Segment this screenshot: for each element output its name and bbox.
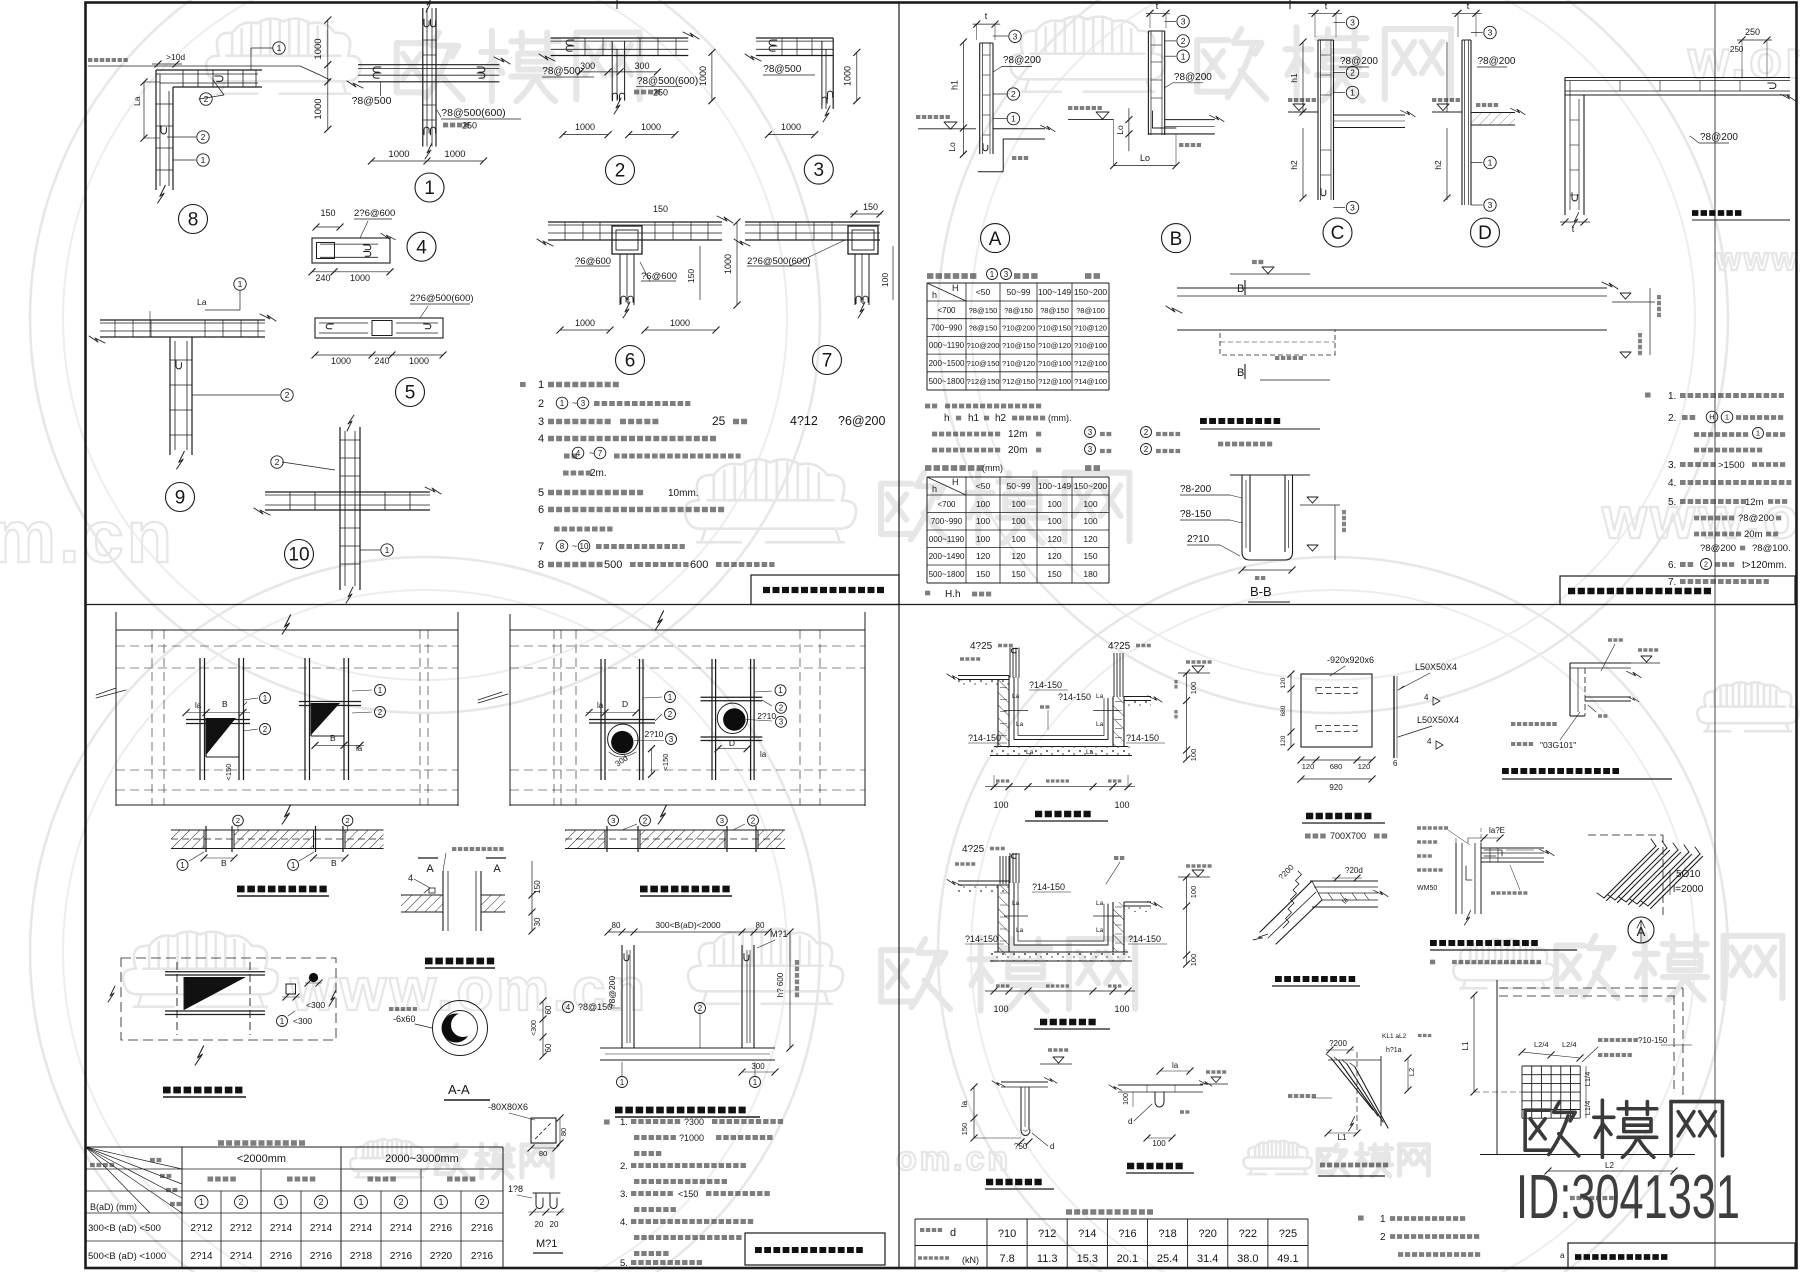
- detail D: [1461, 40, 1463, 205]
- svg-text:B: B: [1237, 283, 1244, 295]
- svg-text:1: 1: [438, 1197, 443, 1207]
- svg-text:1: 1: [180, 861, 185, 870]
- svg-text:2?10: 2?10: [645, 729, 664, 739]
- svg-text:000~1190: 000~1190: [929, 341, 965, 350]
- svg-text:?16: ?16: [1118, 1228, 1136, 1240]
- svg-text:2?16: 2?16: [310, 1251, 333, 1262]
- svg-text:2000~3000mm: 2000~3000mm: [385, 1153, 459, 1165]
- svg-text:2: 2: [238, 1197, 243, 1207]
- svg-text:la: la: [960, 1100, 969, 1107]
- svg-text:<300: <300: [531, 1020, 538, 1036]
- svg-text:6: 6: [538, 504, 544, 516]
- svg-text:A: A: [989, 229, 1002, 250]
- svg-text:2?12: 2?12: [190, 1223, 213, 1234]
- svg-text:2?10: 2?10: [1187, 534, 1210, 545]
- svg-text:150: 150: [960, 1123, 969, 1136]
- svg-text:920: 920: [1329, 783, 1343, 792]
- svg-text:2: 2: [1011, 89, 1016, 99]
- svg-text:?14-150: ?14-150: [1126, 733, 1159, 743]
- svg-text:WM50: WM50: [1417, 885, 1437, 892]
- svg-text:7: 7: [822, 351, 833, 372]
- title box BR: [1568, 1243, 1795, 1268]
- svg-text:3.: 3.: [1668, 460, 1676, 471]
- svg-text:D: D: [622, 699, 628, 709]
- svg-text:2: 2: [668, 710, 673, 719]
- svg-text:2: 2: [643, 816, 648, 825]
- svg-text:80: 80: [756, 921, 765, 930]
- svg-text:3: 3: [581, 399, 586, 408]
- svg-text:2?12: 2?12: [230, 1223, 253, 1234]
- svg-text:200~1490: 200~1490: [929, 552, 965, 561]
- svg-text:6.: 6.: [1668, 560, 1676, 571]
- svg-text:3: 3: [1013, 31, 1018, 41]
- title box TL: [751, 575, 899, 605]
- svg-text:1000: 1000: [575, 122, 595, 132]
- svg-text:120: 120: [1358, 762, 1371, 771]
- svg-text:L1: L1: [1338, 1133, 1347, 1142]
- svg-text:?14-150: ?14-150: [1128, 934, 1161, 944]
- svg-text:h1: h1: [950, 80, 960, 90]
- svg-text:7: 7: [598, 449, 603, 458]
- svg-text:1: 1: [280, 1017, 285, 1026]
- notes right block TR: [1645, 392, 1651, 397]
- svg-text:ID:3041331: ID:3041331: [1516, 1163, 1740, 1232]
- svg-text:Lo: Lo: [1115, 125, 1125, 135]
- svg-text:?1000: ?1000: [679, 1133, 704, 1143]
- BIG dark watermark text: [1525, 1100, 1722, 1157]
- svg-text:?10@120: ?10@120: [1038, 341, 1071, 350]
- svg-text:la: la: [597, 701, 604, 710]
- svg-text:(mm).: (mm).: [1048, 413, 1072, 423]
- svg-text:KL1 aL2: KL1 aL2: [1382, 1033, 1407, 1040]
- roof opening (water tank) U detail: [600, 1047, 775, 1049]
- detail 2 : T: [551, 37, 689, 39]
- detail 3 : L: [756, 37, 833, 39]
- svg-text:680: 680: [1280, 705, 1287, 716]
- svg-text:150: 150: [976, 569, 990, 579]
- svg-text:120: 120: [1011, 551, 1025, 561]
- svg-text:1: 1: [1756, 429, 1760, 438]
- svg-text:3: 3: [779, 718, 784, 727]
- svg-text:1: 1: [668, 693, 673, 702]
- svg-text:1000: 1000: [843, 66, 853, 86]
- notes BL: [604, 1119, 610, 1124]
- svg-text:?10@200: ?10@200: [1002, 324, 1035, 333]
- slab corner radial bars detail: [1496, 980, 1498, 1155]
- svg-text:4?25: 4?25: [1108, 641, 1131, 652]
- svg-text:120: 120: [1280, 735, 1287, 746]
- svg-text:60: 60: [544, 1043, 553, 1052]
- svg-text:38.0: 38.0: [1237, 1253, 1258, 1265]
- svg-text:4: 4: [1427, 737, 1432, 746]
- svg-text:La: La: [197, 297, 207, 307]
- svg-text:h2: h2: [995, 413, 1007, 424]
- svg-text:5.: 5.: [1668, 497, 1676, 508]
- svg-text:B-B: B-B: [1250, 584, 1272, 599]
- svg-text:L2/4: L2/4: [1534, 1040, 1549, 1049]
- svg-text:25: 25: [712, 414, 726, 428]
- svg-text:d: d: [950, 1227, 956, 1239]
- svg-text:100: 100: [1123, 1093, 1130, 1105]
- svg-text:?8@150: ?8@150: [1040, 306, 1069, 315]
- svg-text:2: 2: [1380, 1232, 1386, 1243]
- svg-text:1000: 1000: [444, 149, 465, 160]
- svg-text:150: 150: [1047, 569, 1061, 579]
- svg-text:?12@150: ?12@150: [1002, 377, 1035, 386]
- svg-text:2: 2: [779, 704, 784, 713]
- svg-text:t>120mm.: t>120mm.: [1742, 560, 1787, 571]
- svg-text:3: 3: [611, 816, 615, 825]
- svg-text:La: La: [1096, 693, 1104, 700]
- svg-text:La: La: [1012, 900, 1020, 907]
- svg-text:1: 1: [990, 270, 995, 279]
- BR bottom table: [1066, 1209, 1153, 1214]
- svg-text:H.h: H.h: [945, 589, 961, 600]
- svg-text:?10@120: ?10@120: [1074, 324, 1107, 333]
- svg-text:h: h: [932, 484, 937, 494]
- svg-text:?200: ?200: [1329, 1039, 1347, 1048]
- svg-text:100: 100: [1011, 499, 1025, 509]
- svg-text:680: 680: [1330, 762, 1343, 771]
- svg-text:?8@200: ?8@200: [1340, 56, 1378, 67]
- svg-text:3: 3: [669, 735, 674, 744]
- svg-text:4?25: 4?25: [962, 844, 985, 855]
- svg-text:180: 180: [1083, 569, 1097, 579]
- svg-text:Lo: Lo: [1140, 153, 1150, 163]
- svg-text:500~1800: 500~1800: [929, 570, 965, 579]
- svg-text:?20d: ?20d: [1345, 866, 1363, 875]
- svg-text:100: 100: [1114, 1004, 1129, 1014]
- svg-text:www.: www.: [1715, 241, 1800, 277]
- svg-text:2?10: 2?10: [757, 711, 776, 721]
- svg-text:30: 30: [533, 917, 542, 926]
- detail C: [1317, 40, 1319, 200]
- svg-text:1: 1: [1011, 114, 1016, 124]
- plan3 (opening detail 三): [121, 958, 336, 1040]
- beam-bottom hook detail: [1001, 1081, 1048, 1083]
- svg-text:?8@200: ?8@200: [1700, 543, 1736, 554]
- svg-text:?8@200: ?8@200: [1700, 132, 1738, 143]
- svg-text:100: 100: [1152, 1139, 1166, 1148]
- svg-text:1: 1: [620, 1078, 625, 1087]
- svg-text:4?12: 4?12: [790, 414, 818, 428]
- svg-text:B: B: [221, 858, 227, 868]
- svg-text:la: la: [356, 744, 363, 753]
- svg-text:D: D: [729, 738, 735, 748]
- svg-text:100: 100: [1083, 499, 1097, 509]
- svg-text:?10@150: ?10@150: [966, 359, 999, 368]
- svg-text:2: 2: [378, 708, 383, 717]
- svg-text:?8-150: ?8-150: [1180, 509, 1212, 520]
- svg-text:2: 2: [398, 1197, 403, 1207]
- svg-text:4?25: 4?25: [970, 641, 993, 652]
- detail 1 : cross: [422, 8, 424, 147]
- svg-text:100: 100: [880, 273, 890, 287]
- svg-text:100: 100: [1114, 800, 1129, 810]
- svg-text:4.: 4.: [620, 1217, 628, 1228]
- svg-text:2: 2: [698, 1004, 703, 1013]
- svg-text:h1: h1: [1289, 73, 1299, 83]
- svg-text:120: 120: [1280, 677, 1287, 688]
- svg-text:?8@500(600): ?8@500(600): [637, 76, 698, 87]
- svg-text:?14: ?14: [1078, 1228, 1096, 1240]
- svg-text:La: La: [1026, 749, 1034, 756]
- svg-text:h2: h2: [1433, 160, 1443, 170]
- svg-text:?8@100.: ?8@100.: [1752, 543, 1791, 554]
- svg-text:20: 20: [550, 1220, 559, 1229]
- svg-text:<300: <300: [293, 1016, 312, 1026]
- svg-text:(mm): (mm): [982, 463, 1003, 473]
- svg-text:240: 240: [374, 356, 389, 366]
- svg-text:300<B (aD) <500: 300<B (aD) <500: [88, 1223, 161, 1234]
- svg-text:La: La: [1016, 721, 1024, 728]
- svg-text:?25: ?25: [1279, 1228, 1297, 1240]
- svg-text:4.: 4.: [1668, 478, 1676, 489]
- svg-text:?8@500: ?8@500: [763, 64, 801, 75]
- svg-text:?8@200: ?8@200: [1478, 56, 1516, 67]
- svg-text:la: la: [195, 701, 202, 710]
- svg-text:A: A: [493, 863, 501, 875]
- svg-text:B: B: [331, 858, 337, 868]
- svg-text:1?8: 1?8: [508, 1184, 523, 1194]
- svg-text:?10@100: ?10@100: [1074, 341, 1107, 350]
- svg-text:>1500: >1500: [1718, 460, 1745, 471]
- svg-text:h: h: [932, 290, 937, 300]
- svg-text:?8@100: ?8@100: [1076, 306, 1105, 315]
- svg-text:150: 150: [653, 204, 668, 214]
- svg-text:La: La: [1016, 927, 1024, 934]
- svg-text:?8@200: ?8@200: [1174, 72, 1212, 83]
- svg-text:L2: L2: [1407, 1068, 1416, 1076]
- svg-text:120: 120: [1047, 534, 1061, 544]
- svg-text:100: 100: [976, 499, 990, 509]
- svg-text:150: 150: [320, 208, 335, 218]
- svg-text:4: 4: [408, 873, 413, 883]
- svg-text:L50X50X4: L50X50X4: [1415, 662, 1457, 672]
- svg-text:L1: L1: [1461, 1041, 1470, 1050]
- svg-text:1000: 1000: [313, 98, 324, 119]
- svg-text:1000: 1000: [409, 356, 429, 366]
- svg-text:H: H: [952, 283, 959, 293]
- svg-text:h1: h1: [968, 413, 980, 424]
- svg-text:2?16: 2?16: [471, 1251, 494, 1262]
- svg-text:2?14: 2?14: [230, 1251, 253, 1262]
- svg-text:1000: 1000: [641, 122, 661, 132]
- svg-text:l=2000: l=2000: [1673, 884, 1704, 895]
- svg-text:?8-200: ?8-200: [1180, 484, 1212, 495]
- svg-text:2: 2: [285, 390, 290, 400]
- svg-text:?12@150: ?12@150: [966, 377, 999, 386]
- svg-text:?10@120: ?10@120: [1002, 359, 1035, 368]
- slab-bottom hook detail: [1118, 1084, 1203, 1086]
- svg-text:1: 1: [263, 694, 268, 703]
- svg-text:2: 2: [201, 132, 206, 142]
- svg-text:h: h: [944, 413, 950, 424]
- svg-text:700~990: 700~990: [931, 517, 963, 526]
- svg-text:A-A: A-A: [448, 1082, 470, 1097]
- svg-text:?12: ?12: [1038, 1228, 1056, 1240]
- svg-text:2?6@600: 2?6@600: [354, 208, 395, 219]
- svg-text:2: 2: [204, 94, 209, 104]
- svg-text:7.8: 7.8: [999, 1253, 1014, 1265]
- svg-text:250: 250: [462, 121, 477, 131]
- svg-text:?20: ?20: [1199, 1228, 1217, 1240]
- svg-text:?8@150: ?8@150: [969, 324, 998, 333]
- svg-text:1000: 1000: [388, 149, 409, 160]
- detail 10 : big cross: [339, 427, 341, 590]
- svg-text:~: ~: [589, 448, 594, 458]
- svg-text:8: 8: [560, 542, 565, 551]
- svg-text:500~1800: 500~1800: [929, 377, 965, 386]
- svg-text:M?1: M?1: [770, 929, 788, 939]
- svg-text:150: 150: [533, 880, 542, 894]
- svg-text:?12@100: ?12@100: [1074, 359, 1107, 368]
- svg-text:8: 8: [538, 559, 544, 571]
- svg-text:?10-150: ?10-150: [1638, 1036, 1668, 1045]
- svg-text:1: 1: [424, 178, 435, 199]
- svg-text:d: d: [1050, 1142, 1054, 1151]
- svg-text:5: 5: [405, 383, 416, 404]
- svg-text:2?6@500(600): 2?6@500(600): [410, 293, 474, 304]
- svg-text:1: 1: [291, 861, 296, 870]
- svg-text:100~149: 100~149: [1038, 287, 1072, 297]
- svg-text:2.: 2.: [620, 1161, 628, 1172]
- svg-text:?8@150: ?8@150: [969, 306, 998, 315]
- svg-text:150: 150: [1083, 551, 1097, 561]
- svg-text:h? 600: h? 600: [776, 972, 785, 997]
- table 2: [927, 476, 1109, 478]
- svg-text:3: 3: [814, 160, 825, 181]
- svg-text:120: 120: [1047, 551, 1061, 561]
- B-B lintel drawing: [1177, 287, 1607, 289]
- svg-text:2m.: 2m.: [590, 468, 607, 479]
- svg-text:2: 2: [275, 457, 280, 467]
- svg-text:4: 4: [416, 237, 427, 258]
- svg-text:3: 3: [1181, 17, 1186, 27]
- svg-text:150: 150: [863, 202, 878, 212]
- svg-text:B: B: [1170, 229, 1183, 250]
- svg-text:1: 1: [278, 1197, 283, 1207]
- svg-text:2?16: 2?16: [471, 1223, 494, 1234]
- svg-text:La: La: [132, 96, 142, 106]
- svg-text:200~1500: 200~1500: [929, 359, 965, 368]
- hanger bars fan detail: [1380, 1056, 1382, 1126]
- svg-text:L1/4: L1/4: [1583, 1072, 1592, 1087]
- svg-text:H: H: [1709, 413, 1714, 422]
- svg-text:11.3: 11.3: [1037, 1253, 1058, 1265]
- svg-text:240: 240: [315, 273, 330, 283]
- svg-text:3: 3: [1088, 445, 1093, 454]
- svg-text:2: 2: [318, 1197, 323, 1207]
- svg-text:100: 100: [1189, 749, 1198, 762]
- svg-text:300: 300: [751, 1062, 765, 1071]
- svg-text:20: 20: [535, 1220, 544, 1229]
- svg-text:2: 2: [346, 816, 350, 825]
- svg-text:120: 120: [1302, 762, 1315, 771]
- svg-text:700X700: 700X700: [1330, 831, 1366, 841]
- svg-text:100: 100: [1189, 954, 1198, 967]
- hanging beam detail (top right): [1570, 662, 1631, 664]
- svg-text:3: 3: [1350, 203, 1355, 213]
- svg-text:?10@200: ?10@200: [966, 341, 999, 350]
- svg-text:250: 250: [1745, 27, 1760, 37]
- svg-text:<50: <50: [976, 287, 991, 297]
- detail 6 : T with box: [548, 221, 722, 223]
- svg-text:<700: <700: [937, 306, 956, 315]
- svg-text:?50: ?50: [1014, 1142, 1028, 1151]
- svg-text:La: La: [1096, 721, 1104, 728]
- detail 4 : bar with end box: [312, 238, 390, 263]
- svg-text:?14-150: ?14-150: [965, 934, 998, 944]
- svg-text:-920x920x6: -920x920x6: [1327, 655, 1374, 665]
- svg-text:1: 1: [753, 1078, 758, 1087]
- svg-text:2?14: 2?14: [310, 1223, 333, 1234]
- svg-text:50~99: 50~99: [1007, 287, 1031, 297]
- svg-text:3: 3: [538, 416, 544, 428]
- svg-text:-80X80X6: -80X80X6: [488, 1102, 528, 1112]
- svg-text:300: 300: [634, 61, 649, 71]
- section strip 1: [171, 830, 204, 849]
- svg-text:?300: ?300: [684, 1117, 704, 1127]
- svg-text:?10: ?10: [998, 1228, 1016, 1240]
- svg-text:?8@200: ?8@200: [1003, 55, 1041, 66]
- svg-text:om.cn: om.cn: [0, 495, 175, 578]
- svg-text:2?16: 2?16: [390, 1251, 413, 1262]
- svg-text:100: 100: [976, 534, 990, 544]
- svg-text:?8@150: ?8@150: [1004, 306, 1033, 315]
- svg-text:2: 2: [1144, 445, 1149, 454]
- svg-text:la?E: la?E: [1489, 826, 1505, 835]
- svg-text:?14@100: ?14@100: [1074, 377, 1107, 386]
- svg-text:2?16: 2?16: [430, 1223, 453, 1234]
- svg-text:-6x60: -6x60: [393, 1014, 416, 1024]
- svg-text:1000: 1000: [670, 318, 690, 328]
- svg-text:10: 10: [580, 542, 589, 551]
- svg-text:120: 120: [976, 551, 990, 561]
- svg-text:<150: <150: [661, 754, 670, 771]
- svg-text:M?1: M?1: [536, 1238, 557, 1250]
- svg-text:8: 8: [188, 210, 199, 231]
- svg-text:100: 100: [993, 1004, 1008, 1014]
- steel cover plate: [1301, 674, 1372, 747]
- table 1: [927, 282, 1109, 284]
- svg-text:6: 6: [1393, 759, 1398, 768]
- svg-text:~: ~: [572, 541, 577, 551]
- svg-text:3: 3: [720, 816, 724, 825]
- svg-text:12m: 12m: [1745, 497, 1764, 508]
- svg-text:2: 2: [1181, 36, 1186, 46]
- svg-text:?14-150: ?14-150: [1058, 692, 1091, 702]
- svg-text:>10d: >10d: [166, 52, 185, 62]
- svg-text:2: 2: [263, 725, 268, 734]
- svg-text:100: 100: [976, 516, 990, 526]
- svg-text:1: 1: [201, 155, 206, 165]
- svg-text:1: 1: [1181, 51, 1186, 61]
- detail B: [1147, 31, 1149, 135]
- svg-text:31.4: 31.4: [1197, 1253, 1218, 1265]
- svg-text:?8@500: ?8@500: [352, 95, 392, 107]
- svg-text:1000: 1000: [698, 66, 708, 86]
- svg-text:2: 2: [751, 816, 756, 825]
- svg-text:2?20: 2?20: [430, 1251, 453, 1262]
- svg-text:La: La: [1096, 927, 1104, 934]
- svg-text:500<B (aD) <1000: 500<B (aD) <1000: [88, 1251, 166, 1262]
- svg-text:?10@150: ?10@150: [1038, 324, 1071, 333]
- svg-text:3: 3: [1350, 18, 1355, 28]
- detail 7 : L with box: [745, 221, 880, 223]
- svg-text:5: 5: [538, 487, 544, 499]
- svg-text:100: 100: [1047, 516, 1061, 526]
